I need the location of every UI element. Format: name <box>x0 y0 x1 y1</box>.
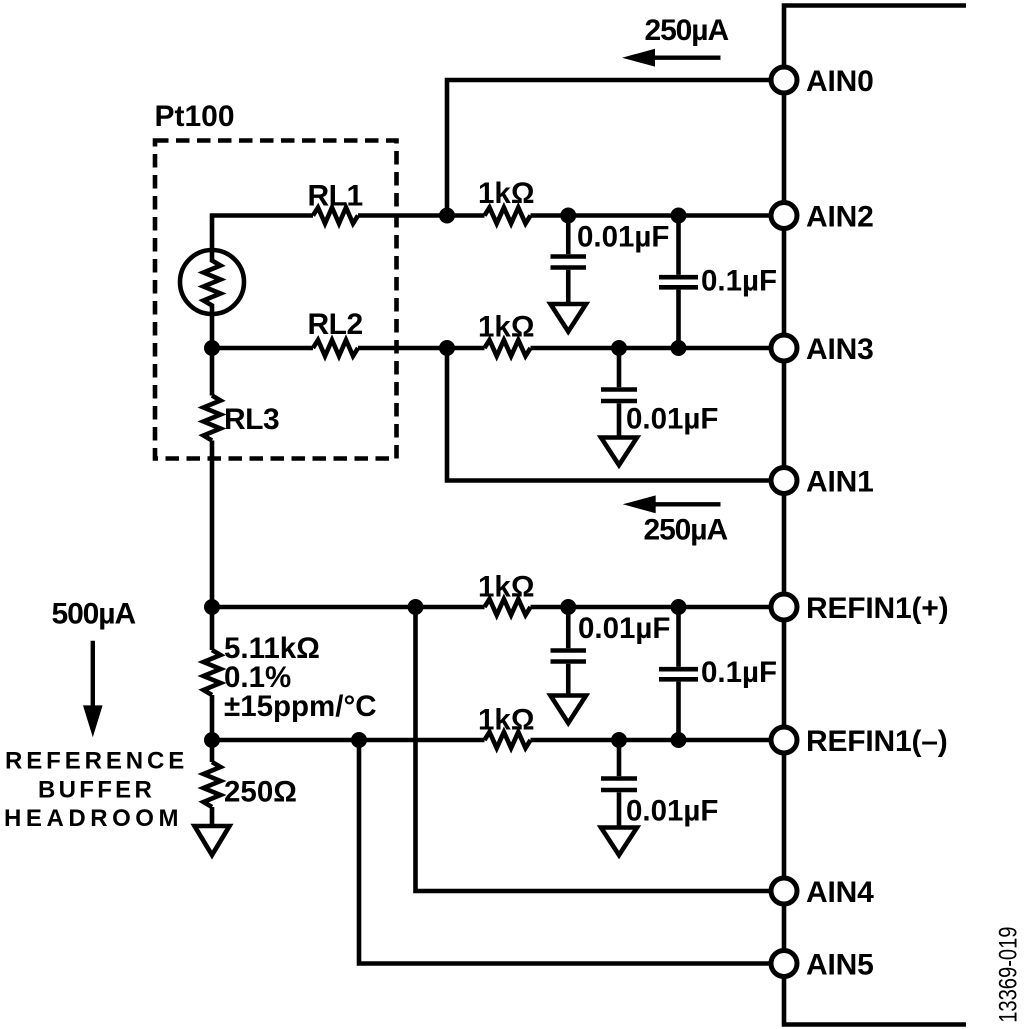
wire REFIN1(-) row left <box>212 738 485 743</box>
svg-text:REFERENCE: REFERENCE <box>5 748 188 775</box>
svg-text:AIN2: AIN2 <box>806 201 874 234</box>
current arrow 250uA lower <box>623 495 721 513</box>
wire RL1 to 1k resistor <box>358 213 485 218</box>
wire 1k to REFIN1(-) pin <box>531 738 785 743</box>
ground below 0.01uF REFIN1(-) row <box>601 828 637 856</box>
wire 250ohm to ground <box>210 807 215 826</box>
svg-text:RL3: RL3 <box>224 403 279 436</box>
svg-text:AIN5: AIN5 <box>806 949 874 982</box>
ADC chip outline (right edge) <box>784 6 966 1025</box>
svg-text:13369-019: 13369-019 <box>993 927 1022 1023</box>
wire RL2 to 1k resistor <box>358 346 485 351</box>
wire 5.11k top lead <box>210 607 215 650</box>
svg-text:1kΩ: 1kΩ <box>478 177 534 210</box>
svg-text:250µA: 250µA <box>645 14 729 47</box>
node AIN3 0.1uF junction <box>671 340 687 356</box>
wire 250ohm top lead <box>210 740 215 762</box>
wire 1k to REFIN1(+) pin <box>531 605 785 610</box>
wire AIN3 row left <box>212 346 313 351</box>
resistor 1k AIN3 row <box>485 340 531 356</box>
pin AIN0 <box>771 67 797 93</box>
resistor 1k AIN2 row <box>485 208 531 224</box>
node AIN3 0.01uF junction <box>611 340 627 356</box>
svg-text:AIN3: AIN3 <box>806 333 874 366</box>
capacitor 0.01uF REFIN1(+) row lower lead <box>566 664 571 696</box>
wire AIN1 to node column <box>447 348 784 481</box>
pin AIN1 <box>771 468 797 494</box>
svg-text:0.01µF: 0.01µF <box>578 612 670 645</box>
ground below 0.01uF REFIN1(+) row <box>551 696 587 724</box>
svg-text:RL1: RL1 <box>308 180 363 213</box>
svg-text:±15ppm/°C: ±15ppm/°C <box>224 690 377 723</box>
node REFIN1(-) 0.1uF junction <box>671 732 687 748</box>
capacitor 0.1uF REFIN1 upper lead <box>676 607 681 667</box>
current arrow 250uA top <box>622 49 721 67</box>
node REFIN1(+) left junction <box>204 599 220 615</box>
node REFIN1(-) left junction <box>204 732 220 748</box>
wire AIN4 route <box>416 607 785 891</box>
svg-text:AIN4: AIN4 <box>806 876 874 909</box>
node RTD bottom junction <box>204 340 220 356</box>
node AIN3-1k junction <box>439 340 455 356</box>
capacitor 0.01uF AIN2 row plates <box>551 257 587 268</box>
svg-text:0.01µF: 0.01µF <box>626 403 718 436</box>
node REFIN1(+) 0.01uF junction <box>560 599 576 615</box>
capacitor 0.01uF REFIN1(+) row plates <box>551 651 587 662</box>
svg-text:0.01µF: 0.01µF <box>626 795 718 828</box>
pin AIN2 <box>771 203 797 229</box>
svg-text:1kΩ: 1kΩ <box>478 311 534 344</box>
svg-text:HEADROOM: HEADROOM <box>4 805 183 832</box>
svg-text:0.1µF: 0.1µF <box>701 265 777 298</box>
wire RL3 to REFIN1(+) node <box>210 441 215 608</box>
node AIN5 branch junction <box>351 732 367 748</box>
resistor 5.11k <box>204 650 221 695</box>
node REFIN1(+) 0.1uF junction <box>671 599 687 615</box>
wire RTD bottom to AIN3 row node <box>210 313 215 348</box>
capacitor 0.01uF REFIN1(-) row plates <box>601 779 637 791</box>
svg-text:AIN0: AIN0 <box>806 65 874 98</box>
capacitor 0.1uF REFIN1 plates <box>659 669 698 679</box>
svg-text:REFIN1(+): REFIN1(+) <box>806 592 948 625</box>
RTD internal zigzag <box>204 251 221 313</box>
capacitor 0.1uF AIN2-AIN3 upper lead <box>676 216 681 275</box>
svg-text:REFIN1(–): REFIN1(–) <box>806 725 948 758</box>
svg-text:0.1µF: 0.1µF <box>701 656 777 689</box>
node AIN2-1k junction <box>439 208 455 224</box>
capacitor 0.01uF REFIN1(-) row lead <box>617 740 622 776</box>
wire AIN2 row left (RL1 lead from Pt100 stem) <box>212 216 313 251</box>
wire AIN5 route <box>359 740 784 964</box>
resistor RL1 <box>313 208 358 224</box>
ground below 0.01uF AIN2 row <box>551 304 587 332</box>
capacitor 0.1uF REFIN1 lower lead <box>676 682 681 740</box>
pin REFIN1(+) <box>771 594 797 620</box>
svg-text:AIN1: AIN1 <box>806 466 874 499</box>
node AIN4 branch junction <box>408 599 424 615</box>
svg-text:250µA: 250µA <box>644 514 728 547</box>
node AIN2 0.01uF junction <box>560 208 576 224</box>
resistor 250ohm <box>204 762 221 807</box>
capacitor 0.1uF AIN2-AIN3 plates <box>659 277 698 287</box>
svg-text:RL2: RL2 <box>308 308 363 341</box>
capacitor 0.01uF AIN2 row lower lead <box>566 270 571 304</box>
resistor RL2 <box>313 340 358 356</box>
pin AIN5 <box>771 951 797 977</box>
svg-text:1kΩ: 1kΩ <box>478 704 534 737</box>
wire 5.11k to REFIN1(-) row <box>210 695 215 740</box>
pin REFIN1(-) <box>771 727 797 753</box>
ground below 250ohm <box>195 826 230 855</box>
ground below 0.01uF AIN3 row <box>601 438 637 466</box>
svg-text:1kΩ: 1kΩ <box>478 571 534 604</box>
capacitor 0.1uF AIN2-AIN3 lower lead <box>676 290 681 348</box>
wire AIN0 to node column <box>447 80 784 216</box>
resistor 1k REFIN1(+) row <box>485 599 531 615</box>
node REFIN1(-) 0.01uF junction <box>611 732 627 748</box>
capacitor 0.01uF AIN3 row plates <box>601 390 637 402</box>
resistor 1k REFIN1(-) row <box>485 732 531 748</box>
capacitor 0.01uF AIN3 row lead <box>617 348 622 387</box>
capacitor 0.01uF REFIN1(+) row lead <box>566 607 571 648</box>
current arrow 500uA down <box>83 641 103 737</box>
node AIN2 0.1uF junction <box>671 208 687 224</box>
svg-text:Pt100: Pt100 <box>155 100 235 133</box>
capacitor 0.01uF AIN2 row lead <box>566 216 571 255</box>
resistor RL3 <box>204 396 221 441</box>
pin AIN4 <box>771 878 797 904</box>
RTD Pt100 sensor circle <box>180 250 244 314</box>
wire REFIN1(+) row left <box>212 605 485 610</box>
dashed box Pt100 <box>155 141 397 459</box>
svg-text:250Ω: 250Ω <box>224 776 297 809</box>
wire RL3 top lead <box>210 348 215 396</box>
wire 1k to AIN3 pin <box>531 346 785 351</box>
capacitor 0.01uF AIN3 row lower lead <box>617 403 622 437</box>
pin AIN3 <box>771 335 797 361</box>
capacitor 0.01uF REFIN1(-) row lower lead <box>617 792 622 827</box>
svg-text:500µA: 500µA <box>52 598 136 631</box>
wire 1k to AIN2 pin <box>531 213 785 218</box>
svg-text:0.01µF: 0.01µF <box>577 221 669 254</box>
svg-text:BUFFER: BUFFER <box>38 777 155 804</box>
